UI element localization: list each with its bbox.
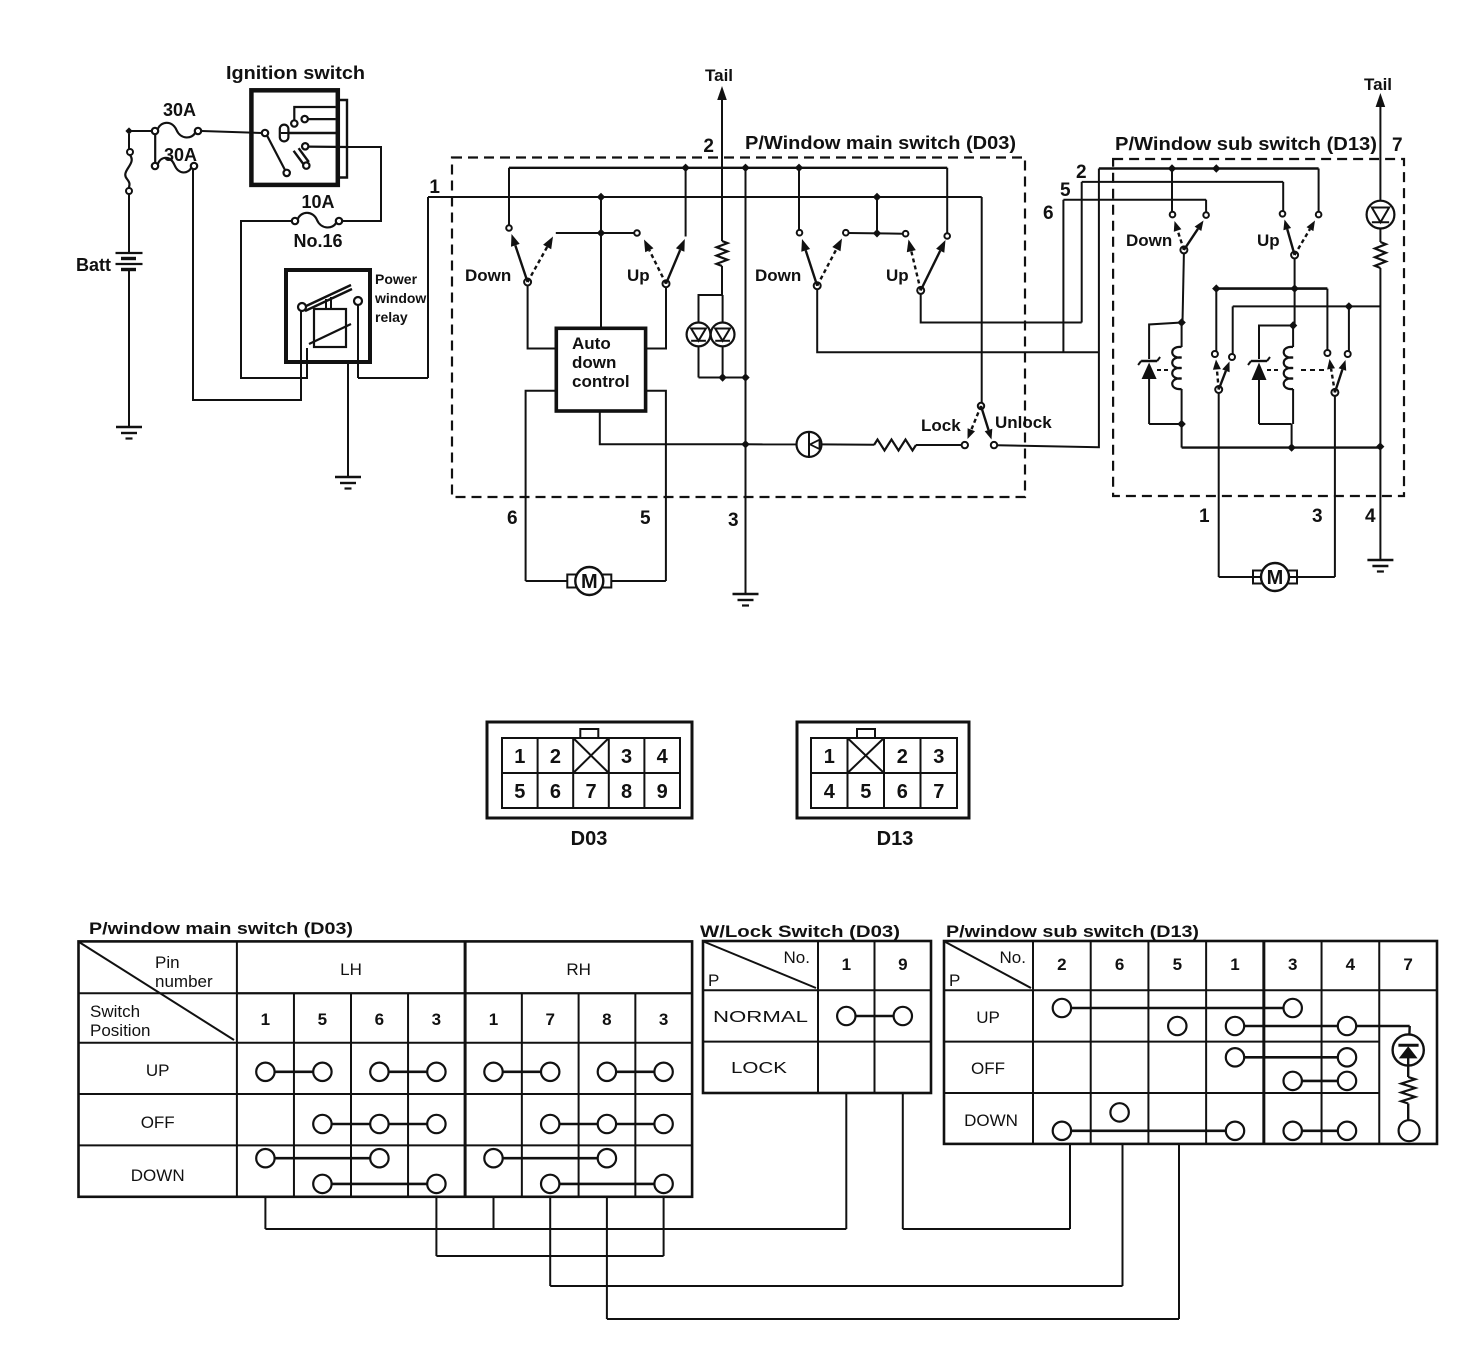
svg-text:3: 3 (659, 1010, 668, 1029)
svg-text:6: 6 (897, 781, 908, 803)
svg-text:P/Window main switch (D03): P/Window main switch (D03) (745, 133, 1016, 153)
svg-text:Auto: Auto (572, 334, 611, 353)
svg-text:D13: D13 (877, 828, 914, 850)
svg-text:30A: 30A (163, 100, 196, 120)
svg-text:4: 4 (824, 781, 836, 803)
svg-text:1: 1 (1199, 506, 1210, 527)
svg-text:Up: Up (1257, 231, 1280, 250)
svg-text:Batt: Batt (76, 255, 111, 275)
svg-text:Up: Up (886, 266, 909, 285)
svg-text:Tail: Tail (1364, 75, 1392, 94)
svg-text:6: 6 (507, 508, 518, 529)
svg-text:LH: LH (340, 960, 362, 979)
svg-text:9: 9 (657, 781, 668, 803)
svg-text:1: 1 (489, 1010, 498, 1029)
svg-text:P: P (949, 971, 960, 990)
svg-text:Lock: Lock (921, 416, 961, 435)
svg-text:6: 6 (375, 1010, 384, 1029)
svg-text:down: down (572, 353, 616, 372)
svg-text:P/window sub switch (D13): P/window sub switch (D13) (946, 922, 1199, 941)
svg-text:UP: UP (976, 1008, 1000, 1027)
svg-text:DOWN: DOWN (131, 1166, 185, 1185)
svg-text:2: 2 (897, 746, 908, 768)
svg-text:8: 8 (602, 1010, 611, 1029)
svg-text:5: 5 (318, 1010, 327, 1029)
svg-text:6: 6 (550, 781, 561, 803)
svg-text:3: 3 (728, 510, 739, 531)
svg-text:DOWN: DOWN (964, 1111, 1018, 1130)
svg-text:5: 5 (860, 781, 871, 803)
svg-text:2: 2 (703, 136, 714, 157)
svg-text:Pin: Pin (155, 953, 180, 972)
svg-text:9: 9 (898, 955, 907, 974)
svg-text:4: 4 (1346, 955, 1356, 974)
svg-text:Down: Down (465, 266, 511, 285)
svg-text:OFF: OFF (141, 1113, 175, 1132)
svg-text:1: 1 (514, 746, 525, 768)
svg-text:relay: relay (375, 309, 408, 325)
svg-text:P: P (708, 971, 719, 990)
svg-text:LOCK: LOCK (731, 1060, 787, 1077)
svg-text:D03: D03 (571, 828, 608, 850)
svg-text:4: 4 (657, 746, 669, 768)
svg-text:P/window main switch (D03): P/window main switch (D03) (89, 919, 353, 938)
svg-text:No.: No. (1000, 948, 1026, 967)
svg-text:M: M (1267, 567, 1284, 589)
svg-text:3: 3 (621, 746, 632, 768)
svg-text:5: 5 (640, 508, 651, 529)
svg-text:2: 2 (1076, 162, 1087, 183)
svg-text:1: 1 (824, 746, 835, 768)
svg-text:7: 7 (1403, 955, 1412, 974)
svg-text:7: 7 (585, 781, 596, 803)
svg-text:6: 6 (1043, 203, 1054, 224)
svg-text:Ignition switch: Ignition switch (226, 63, 365, 83)
svg-text:3: 3 (1288, 955, 1297, 974)
svg-text:Power: Power (375, 271, 418, 287)
svg-text:Up: Up (627, 266, 650, 285)
svg-text:1: 1 (1230, 955, 1239, 974)
svg-text:3: 3 (1312, 506, 1323, 527)
svg-text:7: 7 (1392, 135, 1403, 156)
svg-text:5: 5 (514, 781, 525, 803)
svg-text:7: 7 (933, 781, 944, 803)
svg-text:3: 3 (933, 746, 944, 768)
svg-text:7: 7 (545, 1010, 554, 1029)
svg-text:Tail: Tail (705, 66, 733, 85)
svg-text:UP: UP (146, 1061, 170, 1080)
svg-text:P/Window sub switch (D13): P/Window sub switch (D13) (1115, 134, 1377, 154)
svg-text:2: 2 (550, 746, 561, 768)
svg-text:control: control (572, 372, 630, 391)
svg-text:5: 5 (1173, 955, 1182, 974)
svg-text:10A: 10A (301, 192, 334, 212)
svg-text:1: 1 (429, 177, 440, 198)
svg-text:2: 2 (1057, 955, 1066, 974)
svg-text:Switch: Switch (90, 1002, 140, 1021)
svg-text:No.: No. (784, 948, 810, 967)
svg-text:5: 5 (1060, 180, 1071, 201)
svg-text:4: 4 (1365, 506, 1376, 527)
svg-text:OFF: OFF (971, 1059, 1005, 1078)
svg-text:Unlock: Unlock (995, 413, 1052, 432)
svg-text:NORMAL: NORMAL (713, 1009, 808, 1026)
svg-text:3: 3 (432, 1010, 441, 1029)
svg-text:1: 1 (842, 955, 851, 974)
svg-text:window: window (374, 290, 426, 306)
svg-text:Position: Position (90, 1021, 150, 1040)
svg-text:M: M (581, 571, 598, 593)
svg-text:Down: Down (1126, 231, 1172, 250)
svg-text:RH: RH (566, 960, 591, 979)
svg-text:6: 6 (1115, 955, 1124, 974)
svg-text:1: 1 (261, 1010, 270, 1029)
svg-text:number: number (155, 972, 213, 991)
svg-text:8: 8 (621, 781, 632, 803)
svg-text:W/Lock Switch (D03): W/Lock Switch (D03) (700, 922, 900, 941)
svg-text:No.16: No.16 (293, 231, 342, 251)
svg-text:30A: 30A (164, 145, 197, 165)
svg-text:Down: Down (755, 266, 801, 285)
